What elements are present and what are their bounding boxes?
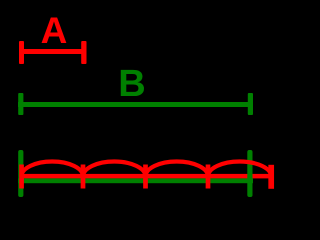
svg-text:A: A (41, 10, 68, 51)
composite red tick 1 (81, 165, 86, 189)
composite green left tick (18, 150, 23, 197)
svg-text:B: B (118, 63, 145, 105)
segment B left tick (18, 93, 23, 115)
composite green line (segment B) (18, 178, 253, 183)
composite green right tick (247, 150, 252, 197)
arc 3 (third copy of A) (146, 162, 209, 177)
segment B right tick (248, 93, 253, 115)
composite red baseline (copies of A laid along B) (19, 174, 274, 179)
composite red tick 2 (143, 165, 148, 189)
arc 1 (first copy of A) (21, 162, 83, 177)
segment A left tick (19, 41, 24, 64)
segment A line (19, 49, 87, 54)
segment B line (18, 102, 253, 107)
composite red tick 3 (206, 165, 211, 189)
arc 4 (fourth copy of A) (208, 161, 271, 176)
composite red tick 0 (19, 165, 24, 189)
composite red tick 4 (end of fourth copy) (268, 165, 274, 189)
arc 2 (second copy of A) (83, 162, 146, 177)
segment A right tick (81, 41, 86, 64)
